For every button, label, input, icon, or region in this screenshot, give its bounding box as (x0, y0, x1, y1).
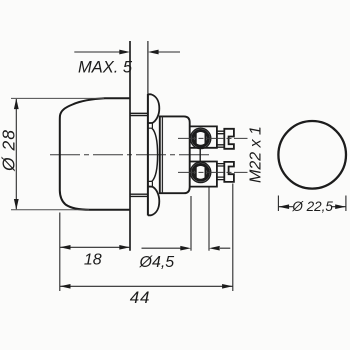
MAX. 5 right extension line (147, 41, 149, 94)
clamp screw head upper (slot to right) (224, 129, 234, 149)
dia 4,5 extension lines (190, 196, 192, 251)
neck lines between cap and flange (bottom) (130, 194, 148, 196)
cap face / extension line (long vertical) (129, 41, 131, 251)
terminal screw lower (190, 162, 210, 182)
dia 22,5 dimension (278, 196, 346, 212)
switch body (160, 116, 190, 193)
screw axis line lower (178, 171, 248, 173)
svg-text:44: 44 (130, 288, 151, 307)
flange inner dome arc (152, 128, 158, 181)
dia 28 extension lines (11, 97, 104, 99)
svg-text:Ø4,5: Ø4,5 (139, 254, 175, 271)
screw axis line upper (178, 137, 248, 139)
18 dimension (60, 246, 130, 248)
terminal screw upper (190, 128, 210, 148)
44 right extension line (232, 184, 234, 292)
clamp screw shank upper (217, 131, 224, 147)
flange top bulge (148, 94, 159, 123)
terminal block lower (190, 162, 217, 187)
svg-text:Ø 22,5: Ø 22,5 (291, 199, 333, 214)
main horizontal center line (50, 154, 212, 156)
flange left face (147, 94, 149, 216)
flange wedge lines top (148, 123, 153, 128)
wall between terminal blocks (199, 148, 201, 162)
terminal block upper (190, 126, 217, 147)
clamp screw shank lower (217, 164, 224, 180)
left extension line (shared 18/44) (59, 213, 61, 292)
front view circle (278, 121, 346, 189)
dia 4,5 dimension (142, 247, 231, 249)
MAX. 5 dimension line (74, 51, 180, 53)
svg-text:M22 x 1: M22 x 1 (248, 126, 265, 183)
clamp screw head lower (224, 162, 234, 182)
flange bottom bulge (148, 187, 159, 216)
svg-text:18: 18 (84, 252, 102, 269)
neck lines between cap and flange (top) (130, 113, 148, 115)
push-button cap outline (60, 98, 130, 210)
svg-text:Ø 28: Ø 28 (0, 129, 19, 172)
svg-text:MAX. 5: MAX. 5 (78, 59, 133, 77)
dia 28 dimension line (15, 99, 17, 209)
flange wedge lines bottom (148, 181, 153, 186)
44 dimension (60, 285, 233, 287)
body inner left line (161, 116, 163, 193)
